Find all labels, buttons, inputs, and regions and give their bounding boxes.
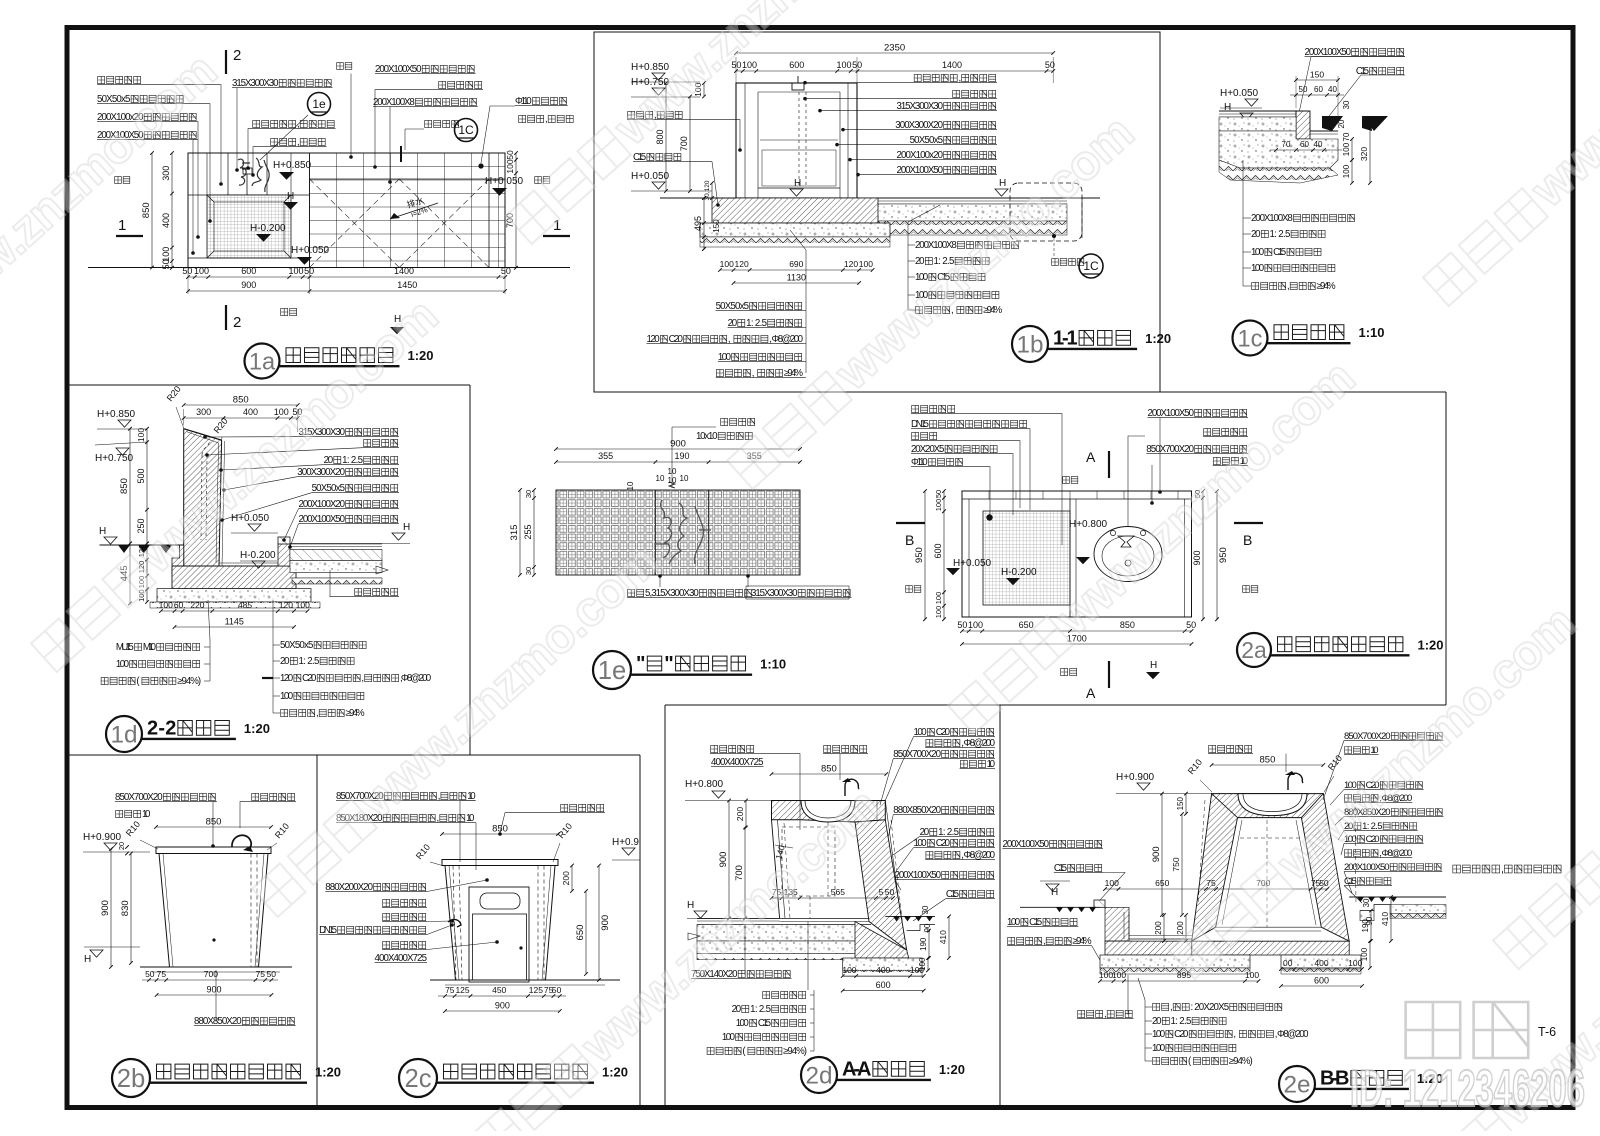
svg-text:1c: 1c <box>1238 326 1263 352</box>
svg-text:": " <box>636 653 645 675</box>
svg-text:30: 30 <box>1342 100 1351 109</box>
svg-text:20: 20 <box>1152 1016 1162 1027</box>
svg-text:H: H <box>687 900 694 911</box>
1c curb <box>1296 111 1310 139</box>
svg-text:600: 600 <box>789 60 804 70</box>
svg-text:485: 485 <box>238 600 252 610</box>
svg-text:1:20: 1:20 <box>244 721 270 736</box>
svg-text:H: H <box>1150 660 1157 671</box>
svg-text:, Φ8@200: , Φ8@200 <box>1275 1029 1309 1040</box>
svg-text:1b: 1b <box>1016 332 1043 359</box>
svg-text:50: 50 <box>1319 878 1329 888</box>
svg-text:40: 40 <box>1314 140 1323 149</box>
1a pool basin bevel <box>207 195 214 202</box>
svg-text:H+0.850: H+0.850 <box>273 160 312 171</box>
svg-text:950: 950 <box>914 547 925 563</box>
2b label basin <box>252 793 295 800</box>
title 1b section 1-1 <box>1012 326 1048 362</box>
svg-text:20: 20 <box>117 842 126 850</box>
2d bottom dims <box>843 975 924 977</box>
svg-text:650: 650 <box>1155 878 1169 888</box>
svg-text:1: 2.5: 1: 2.5 <box>299 656 320 667</box>
2d right paving <box>885 915 935 917</box>
svg-text:200X100X8: 200X100X8 <box>1251 213 1293 224</box>
1e left dims <box>519 490 521 575</box>
svg-text:100: 100 <box>934 499 943 512</box>
svg-text:,: , <box>545 114 548 125</box>
2e left wall <box>1192 794 1238 942</box>
svg-text:100: 100 <box>194 266 209 276</box>
svg-text:1:20: 1:20 <box>315 1065 341 1080</box>
svg-text:200: 200 <box>561 871 571 885</box>
svg-text:100: 100 <box>836 60 851 70</box>
2a pool drain <box>986 514 992 520</box>
svg-text:ID: 1212346206: ID: 1212346206 <box>1350 1060 1585 1118</box>
2b vdim 830 <box>130 854 132 964</box>
2e wall linings <box>1198 800 1205 905</box>
svg-text:750: 750 <box>1171 857 1181 871</box>
1d ground left <box>100 544 184 546</box>
svg-text:1450: 1450 <box>397 280 417 290</box>
1b pavement concrete <box>857 204 1067 221</box>
svg-text:100: 100 <box>1245 970 1259 980</box>
svg-text:2c: 2c <box>404 1065 431 1093</box>
2e label basin <box>1209 745 1252 752</box>
svg-text:410: 410 <box>1380 912 1390 926</box>
1a green left <box>115 177 130 184</box>
2d faucet <box>845 779 859 796</box>
svg-text:: 20X20X5: : 20X20X5 <box>1191 1002 1230 1013</box>
svg-text:900: 900 <box>670 439 686 450</box>
svg-text:50: 50 <box>182 266 192 276</box>
1e dim 900 <box>556 448 800 450</box>
svg-text:950: 950 <box>1218 547 1229 563</box>
1d base steps <box>172 545 184 575</box>
2e dim 850 <box>1212 764 1324 766</box>
svg-text:650: 650 <box>575 925 586 941</box>
svg-text:495: 495 <box>693 216 703 231</box>
svg-text:10: 10 <box>656 474 665 483</box>
2c label basin <box>561 804 604 811</box>
2b center dot <box>212 938 215 941</box>
svg-text:850: 850 <box>1120 620 1135 630</box>
svg-text:900: 900 <box>1151 846 1162 862</box>
1b dashed node box <box>1010 183 1082 241</box>
title 2e section B-B <box>1279 1066 1315 1102</box>
1e dim row2 <box>556 461 800 463</box>
svg-text:20: 20 <box>1337 119 1346 128</box>
svg-text:50: 50 <box>1299 85 1308 94</box>
svg-text:50: 50 <box>304 266 314 276</box>
title 1a mop pool plan <box>245 344 280 379</box>
svg-text:A: A <box>1086 685 1096 701</box>
2d left dims <box>745 801 747 828</box>
1d soil right <box>292 578 382 584</box>
svg-text:150: 150 <box>1310 70 1324 80</box>
2c right dims <box>571 866 573 892</box>
2a plan outer <box>962 491 1192 617</box>
svg-text:900: 900 <box>206 985 221 995</box>
title 1d section 2-2 <box>106 716 142 752</box>
2e left paving marks <box>1056 907 1096 912</box>
2b faucet <box>232 835 251 850</box>
1c dim 706040 <box>1270 149 1342 151</box>
svg-text:50: 50 <box>552 985 562 995</box>
svg-text:50: 50 <box>267 969 277 979</box>
2e counter slab <box>1212 794 1324 818</box>
svg-text:M10: M10 <box>143 642 157 653</box>
svg-text:1145: 1145 <box>225 617 244 627</box>
2a left dims <box>943 491 945 619</box>
1a drain arrow <box>390 203 438 219</box>
svg-text:1130: 1130 <box>787 273 806 283</box>
svg-text:50: 50 <box>957 620 967 630</box>
svg-text:650: 650 <box>1019 620 1034 630</box>
svg-text:850: 850 <box>119 478 130 494</box>
2e faucet <box>1288 773 1303 790</box>
2d interior floor <box>780 917 869 919</box>
1a ext lines <box>187 268 189 295</box>
1d below dims <box>146 543 148 589</box>
watermark band 10 <box>1487 586 1600 974</box>
svg-text:400: 400 <box>243 407 258 417</box>
2d bottomleft labels <box>763 991 806 998</box>
svg-text:830: 830 <box>120 900 131 916</box>
divider 2b/2c <box>316 755 318 1108</box>
svg-text:100: 100 <box>288 266 303 276</box>
svg-text:1e: 1e <box>312 97 326 111</box>
svg-text:10: 10 <box>626 481 635 490</box>
svg-text:1C: 1C <box>458 123 474 137</box>
svg-text:850: 850 <box>233 395 249 406</box>
svg-text:300: 300 <box>196 407 211 417</box>
svg-text:1:10: 1:10 <box>760 657 786 672</box>
svg-text:400: 400 <box>876 965 890 975</box>
1b pavement step <box>1067 198 1082 238</box>
svg-text:30: 30 <box>1362 898 1371 907</box>
watermark band 3 <box>500 0 923 249</box>
svg-text:1d: 1d <box>110 722 137 749</box>
1a right dims <box>515 153 517 268</box>
svg-text:H-0.200: H-0.200 <box>1001 567 1037 578</box>
2d pavement left <box>697 917 780 919</box>
1d soil hatch <box>150 602 320 608</box>
2d slab layers left <box>697 925 857 942</box>
1a paving note <box>281 308 297 315</box>
svg-text:20: 20 <box>280 656 290 667</box>
2d left wall <box>772 820 780 919</box>
svg-text:H+0.800: H+0.800 <box>1069 519 1108 530</box>
1a ground line <box>88 267 570 269</box>
svg-text:75: 75 <box>256 969 266 979</box>
1c concrete band <box>1219 117 1296 131</box>
1a cut 1 right <box>543 235 570 237</box>
svg-text:50X50x5: 50X50x5 <box>280 640 313 651</box>
1a cut 1 left <box>116 235 143 237</box>
svg-text:≥94%): ≥94%) <box>1229 1056 1253 1067</box>
watermark band 1 <box>246 534 669 922</box>
svg-text:50: 50 <box>1186 620 1196 630</box>
1b vdim 700 <box>689 97 691 192</box>
1b wall outer <box>736 83 857 198</box>
2e pool floor <box>1216 926 1322 928</box>
svg-text:MU15: MU15 <box>116 642 134 653</box>
svg-text:H: H <box>403 522 410 533</box>
1b vdim 100 <box>703 83 705 97</box>
svg-text:C15: C15 <box>1273 247 1286 258</box>
2a green notes <box>906 586 921 593</box>
svg-text:150: 150 <box>712 219 721 233</box>
2d wall foundation <box>855 922 909 959</box>
svg-text:B-B: B-B <box>1320 1068 1349 1090</box>
2c body chamfers <box>449 866 459 981</box>
svg-text:600: 600 <box>241 266 256 276</box>
1a cut 2 bottom <box>225 305 227 330</box>
2c slab <box>442 860 558 866</box>
watermark band 4 <box>721 106 1144 494</box>
svg-text:,: , <box>316 708 319 719</box>
svg-text:2b: 2b <box>117 1065 146 1093</box>
2d footing <box>843 958 922 970</box>
svg-text:850: 850 <box>1260 755 1276 766</box>
1a drain X right <box>399 179 489 268</box>
svg-text:75: 75 <box>157 969 167 979</box>
watermark band 2 <box>467 779 890 1136</box>
1a plan outer <box>188 153 505 268</box>
divider 2d/2e <box>999 705 1001 1108</box>
svg-text:50: 50 <box>505 150 515 160</box>
1a cut 2 top <box>225 50 227 74</box>
2e interior dashed <box>1266 820 1268 927</box>
svg-text:220: 220 <box>190 600 204 610</box>
svg-text:690: 690 <box>789 259 803 269</box>
svg-text:H+0.050: H+0.050 <box>1220 88 1259 99</box>
2c bin slot <box>480 893 520 909</box>
title 2b wash elev 1 <box>112 1059 150 1097</box>
svg-text:100: 100 <box>280 691 294 702</box>
title 2c wash elev 2 <box>399 1059 437 1097</box>
svg-text:10: 10 <box>680 474 689 483</box>
svg-text:900: 900 <box>1192 550 1202 565</box>
svg-text:C20: C20 <box>302 673 317 684</box>
1a cut tick <box>400 146 402 162</box>
svg-text:A-A: A-A <box>842 1059 871 1081</box>
svg-text:H-0.200: H-0.200 <box>240 550 276 561</box>
svg-text:850: 850 <box>141 202 152 218</box>
2d left end arrow <box>688 933 700 940</box>
svg-text:,: , <box>1501 864 1504 876</box>
svg-text:700: 700 <box>679 136 689 151</box>
svg-text:H+0.900: H+0.900 <box>1116 772 1155 783</box>
svg-text:≥94%: ≥94% <box>346 708 365 719</box>
2e footing left <box>1100 955 1250 968</box>
1a yue engraving <box>238 158 269 192</box>
svg-text:1: 2.5: 1: 2.5 <box>750 1004 771 1015</box>
1d pipe dashed <box>201 455 202 540</box>
svg-text:900: 900 <box>100 900 111 916</box>
svg-text:≥94%: ≥94% <box>983 305 1002 316</box>
svg-text:100: 100 <box>720 259 734 269</box>
1d label road <box>355 588 398 595</box>
svg-text:H-0.200: H-0.200 <box>250 223 286 234</box>
svg-text:190: 190 <box>1361 919 1370 933</box>
1a pool bottom band <box>188 257 310 259</box>
1b ground hatch marks <box>660 197 736 199</box>
svg-text:100: 100 <box>910 965 924 975</box>
svg-text:": " <box>664 653 673 675</box>
svg-text:120: 120 <box>280 673 294 684</box>
svg-text:1:10: 1:10 <box>1359 325 1385 340</box>
svg-text:255: 255 <box>523 524 533 539</box>
svg-text:315: 315 <box>509 525 520 541</box>
2d counter slab <box>772 801 886 823</box>
2d interior dashed <box>782 827 835 896</box>
svg-text:50: 50 <box>501 266 511 276</box>
1c dim 150 <box>1296 79 1338 81</box>
1a pool basin mosaic <box>207 195 291 258</box>
svg-text:410: 410 <box>938 930 948 944</box>
svg-text:,Φ8@200: ,Φ8@200 <box>400 673 432 684</box>
svg-text:2a: 2a <box>1241 637 1267 663</box>
2d label bin <box>711 745 754 752</box>
1a pool outer <box>188 153 310 268</box>
watermark band 8 <box>1417 0 1600 311</box>
svg-text:2: 2 <box>233 47 241 64</box>
1d dim 850 <box>184 404 298 406</box>
2a top band <box>962 498 1192 500</box>
svg-text:1:20: 1:20 <box>1418 637 1444 652</box>
2a paving note <box>1061 668 1077 675</box>
svg-text:100: 100 <box>505 159 515 173</box>
svg-text:2350: 2350 <box>884 43 905 54</box>
svg-text:125: 125 <box>529 985 543 995</box>
1e grid <box>556 490 800 575</box>
svg-text:1400: 1400 <box>394 266 414 276</box>
1b soil under <box>700 237 890 247</box>
1a left labels <box>98 76 141 83</box>
svg-text:A: A <box>1086 449 1096 465</box>
divider left of 2d <box>664 705 666 1108</box>
1d wall lining <box>187 432 219 563</box>
svg-text:1: 2.5: 1: 2.5 <box>1171 1016 1192 1027</box>
1d bottom dims <box>161 610 308 612</box>
1b bottom dims <box>720 269 873 271</box>
svg-text:900: 900 <box>241 280 256 290</box>
2b vdim 900 <box>110 849 112 967</box>
1a pool top band line <box>188 194 310 196</box>
svg-text:450: 450 <box>492 985 506 995</box>
divider under 1c <box>1160 391 1446 393</box>
svg-text:100: 100 <box>1342 164 1351 178</box>
znzmo logo + id <box>1350 1002 1585 1118</box>
svg-text:H: H <box>99 526 106 537</box>
svg-text:C20: C20 <box>1174 1029 1189 1040</box>
svg-text:2e: 2e <box>1283 1072 1310 1099</box>
2b slab <box>156 847 271 854</box>
svg-text:70: 70 <box>1342 132 1351 141</box>
divider right of 1d <box>469 385 471 755</box>
watermark band 6 <box>1163 596 1586 984</box>
watermark band 9 <box>0 44 227 432</box>
svg-text:1:20: 1:20 <box>1145 331 1171 346</box>
svg-text:100: 100 <box>934 606 943 619</box>
1c base stipple <box>1219 131 1338 168</box>
svg-text:400: 400 <box>161 213 171 228</box>
svg-text:1a: 1a <box>249 349 276 375</box>
svg-text:200: 200 <box>1154 921 1163 935</box>
svg-text:00: 00 <box>1283 958 1293 968</box>
1e yue outline <box>655 500 711 564</box>
svg-text:565: 565 <box>831 887 845 897</box>
1d pavement right <box>290 543 382 545</box>
svg-text:5: 5 <box>879 887 884 897</box>
svg-text:H+0.050: H+0.050 <box>631 171 670 182</box>
svg-text:100: 100 <box>1112 970 1126 980</box>
svg-text:100: 100 <box>1342 142 1351 156</box>
1a noderef 1e <box>308 93 331 116</box>
1a paving band lines <box>310 178 506 180</box>
1c cut triangles <box>1322 116 1343 131</box>
2b dashed edges <box>250 854 252 968</box>
2d label basin <box>824 745 867 752</box>
svg-text:≥94%: ≥94% <box>1317 281 1336 292</box>
svg-text:100: 100 <box>842 965 856 975</box>
1b foundation hatch <box>712 198 878 223</box>
2e right paving <box>1349 896 1446 898</box>
1b dim 2350 <box>736 52 1053 54</box>
svg-text:H+0.050: H+0.050 <box>953 558 992 569</box>
1d dim row2 <box>184 417 298 419</box>
svg-text:100: 100 <box>722 1032 736 1043</box>
1a yue wall cell <box>228 153 267 195</box>
svg-text:,: , <box>361 673 364 684</box>
1b dim row2 <box>736 70 1053 72</box>
2d right wall <box>855 820 907 950</box>
2a right dims <box>1202 491 1204 619</box>
2c bin outer <box>469 887 529 982</box>
svg-text:,: , <box>1287 281 1290 292</box>
svg-text:200: 200 <box>735 807 745 821</box>
svg-text:2d: 2d <box>805 1063 832 1090</box>
2b body <box>159 854 268 968</box>
svg-text:H: H <box>794 178 801 189</box>
svg-text:100: 100 <box>1251 247 1265 258</box>
1d footing stipple <box>157 589 311 603</box>
divider above 2d <box>665 704 1446 706</box>
2a pool mosaic <box>983 511 1070 605</box>
svg-text:20: 20 <box>915 256 925 267</box>
1d wall top slope <box>184 429 222 441</box>
svg-text:600: 600 <box>1314 976 1329 986</box>
watermark band 0 <box>25 289 448 677</box>
1b wall layers <box>744 83 746 198</box>
svg-text:1C: 1C <box>1083 259 1099 273</box>
1d pool floor lining <box>219 565 284 567</box>
1b faucet top <box>792 83 804 90</box>
2e footing right <box>1281 955 1361 968</box>
svg-text:100: 100 <box>968 620 983 630</box>
svg-text:1-1: 1-1 <box>1053 328 1078 350</box>
2d dims top <box>772 773 887 775</box>
svg-text:100: 100 <box>1348 958 1362 968</box>
1d left dims <box>146 429 148 544</box>
svg-text:60: 60 <box>1300 140 1309 149</box>
svg-text:30: 30 <box>524 490 533 498</box>
divider above 2b <box>66 754 640 756</box>
svg-text:600: 600 <box>876 980 891 990</box>
svg-text:90: 90 <box>923 923 932 932</box>
2a divider wall <box>1069 499 1071 617</box>
